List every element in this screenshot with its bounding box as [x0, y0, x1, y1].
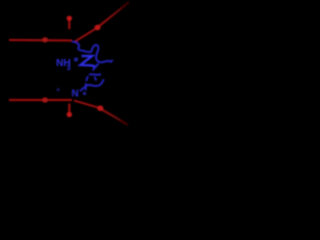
wire: top wavy N bond (blue) [72, 42, 91, 53]
node plus: small charge mark (blue) [74, 58, 78, 62]
wire: top diagonal O-CH2CH3 chain (red) [75, 29, 96, 42]
node Z: large Z-shaped glyph (blue) [81, 56, 97, 67]
wire: bottom diagonal O-CH2CH3 chain (red) [74, 101, 98, 108]
node O4: oxygen label on bottom horizontal bond [42, 97, 48, 102]
wire: staircase left step (blue) [86, 76, 88, 81]
node O5: bottom carbonyl oxygen label [67, 112, 72, 117]
wire: top C=O double bond (red) [68, 21, 70, 30]
wire: staircase step 1 (blue) [93, 64, 99, 71]
node charge dot left of N2 (faint blue) [57, 88, 60, 91]
node O6: oxygen label on bottom diagonal [97, 106, 103, 111]
svg-text:3: 3 [67, 63, 71, 72]
wire: bottom horizontal C-O bond (red) [9, 99, 72, 101]
wire: staircase dash 2 (blue) [89, 73, 101, 76]
wire: top horizontal C-O bond (red) [9, 39, 72, 42]
wire: bottom C=O double bond (red) [68, 104, 70, 113]
node O1: oxygen label on top horizontal bond [42, 37, 48, 42]
wire: tail to bottom N (blue) [80, 86, 86, 91]
wire: staircase step 2 (blue) [95, 77, 97, 81]
node O3: oxygen label on top diagonal [95, 25, 101, 30]
wire: upper-right wavy curl (blue) [91, 45, 112, 62]
node N2 superscript mark (blue) [83, 92, 86, 95]
wire: staircase dash 3 with hook (blue) [86, 79, 103, 86]
wire: bottom small vertical tick (blue) [85, 83, 87, 90]
svg-text:N: N [72, 89, 79, 100]
node O2: top carbonyl oxygen label [67, 16, 72, 21]
